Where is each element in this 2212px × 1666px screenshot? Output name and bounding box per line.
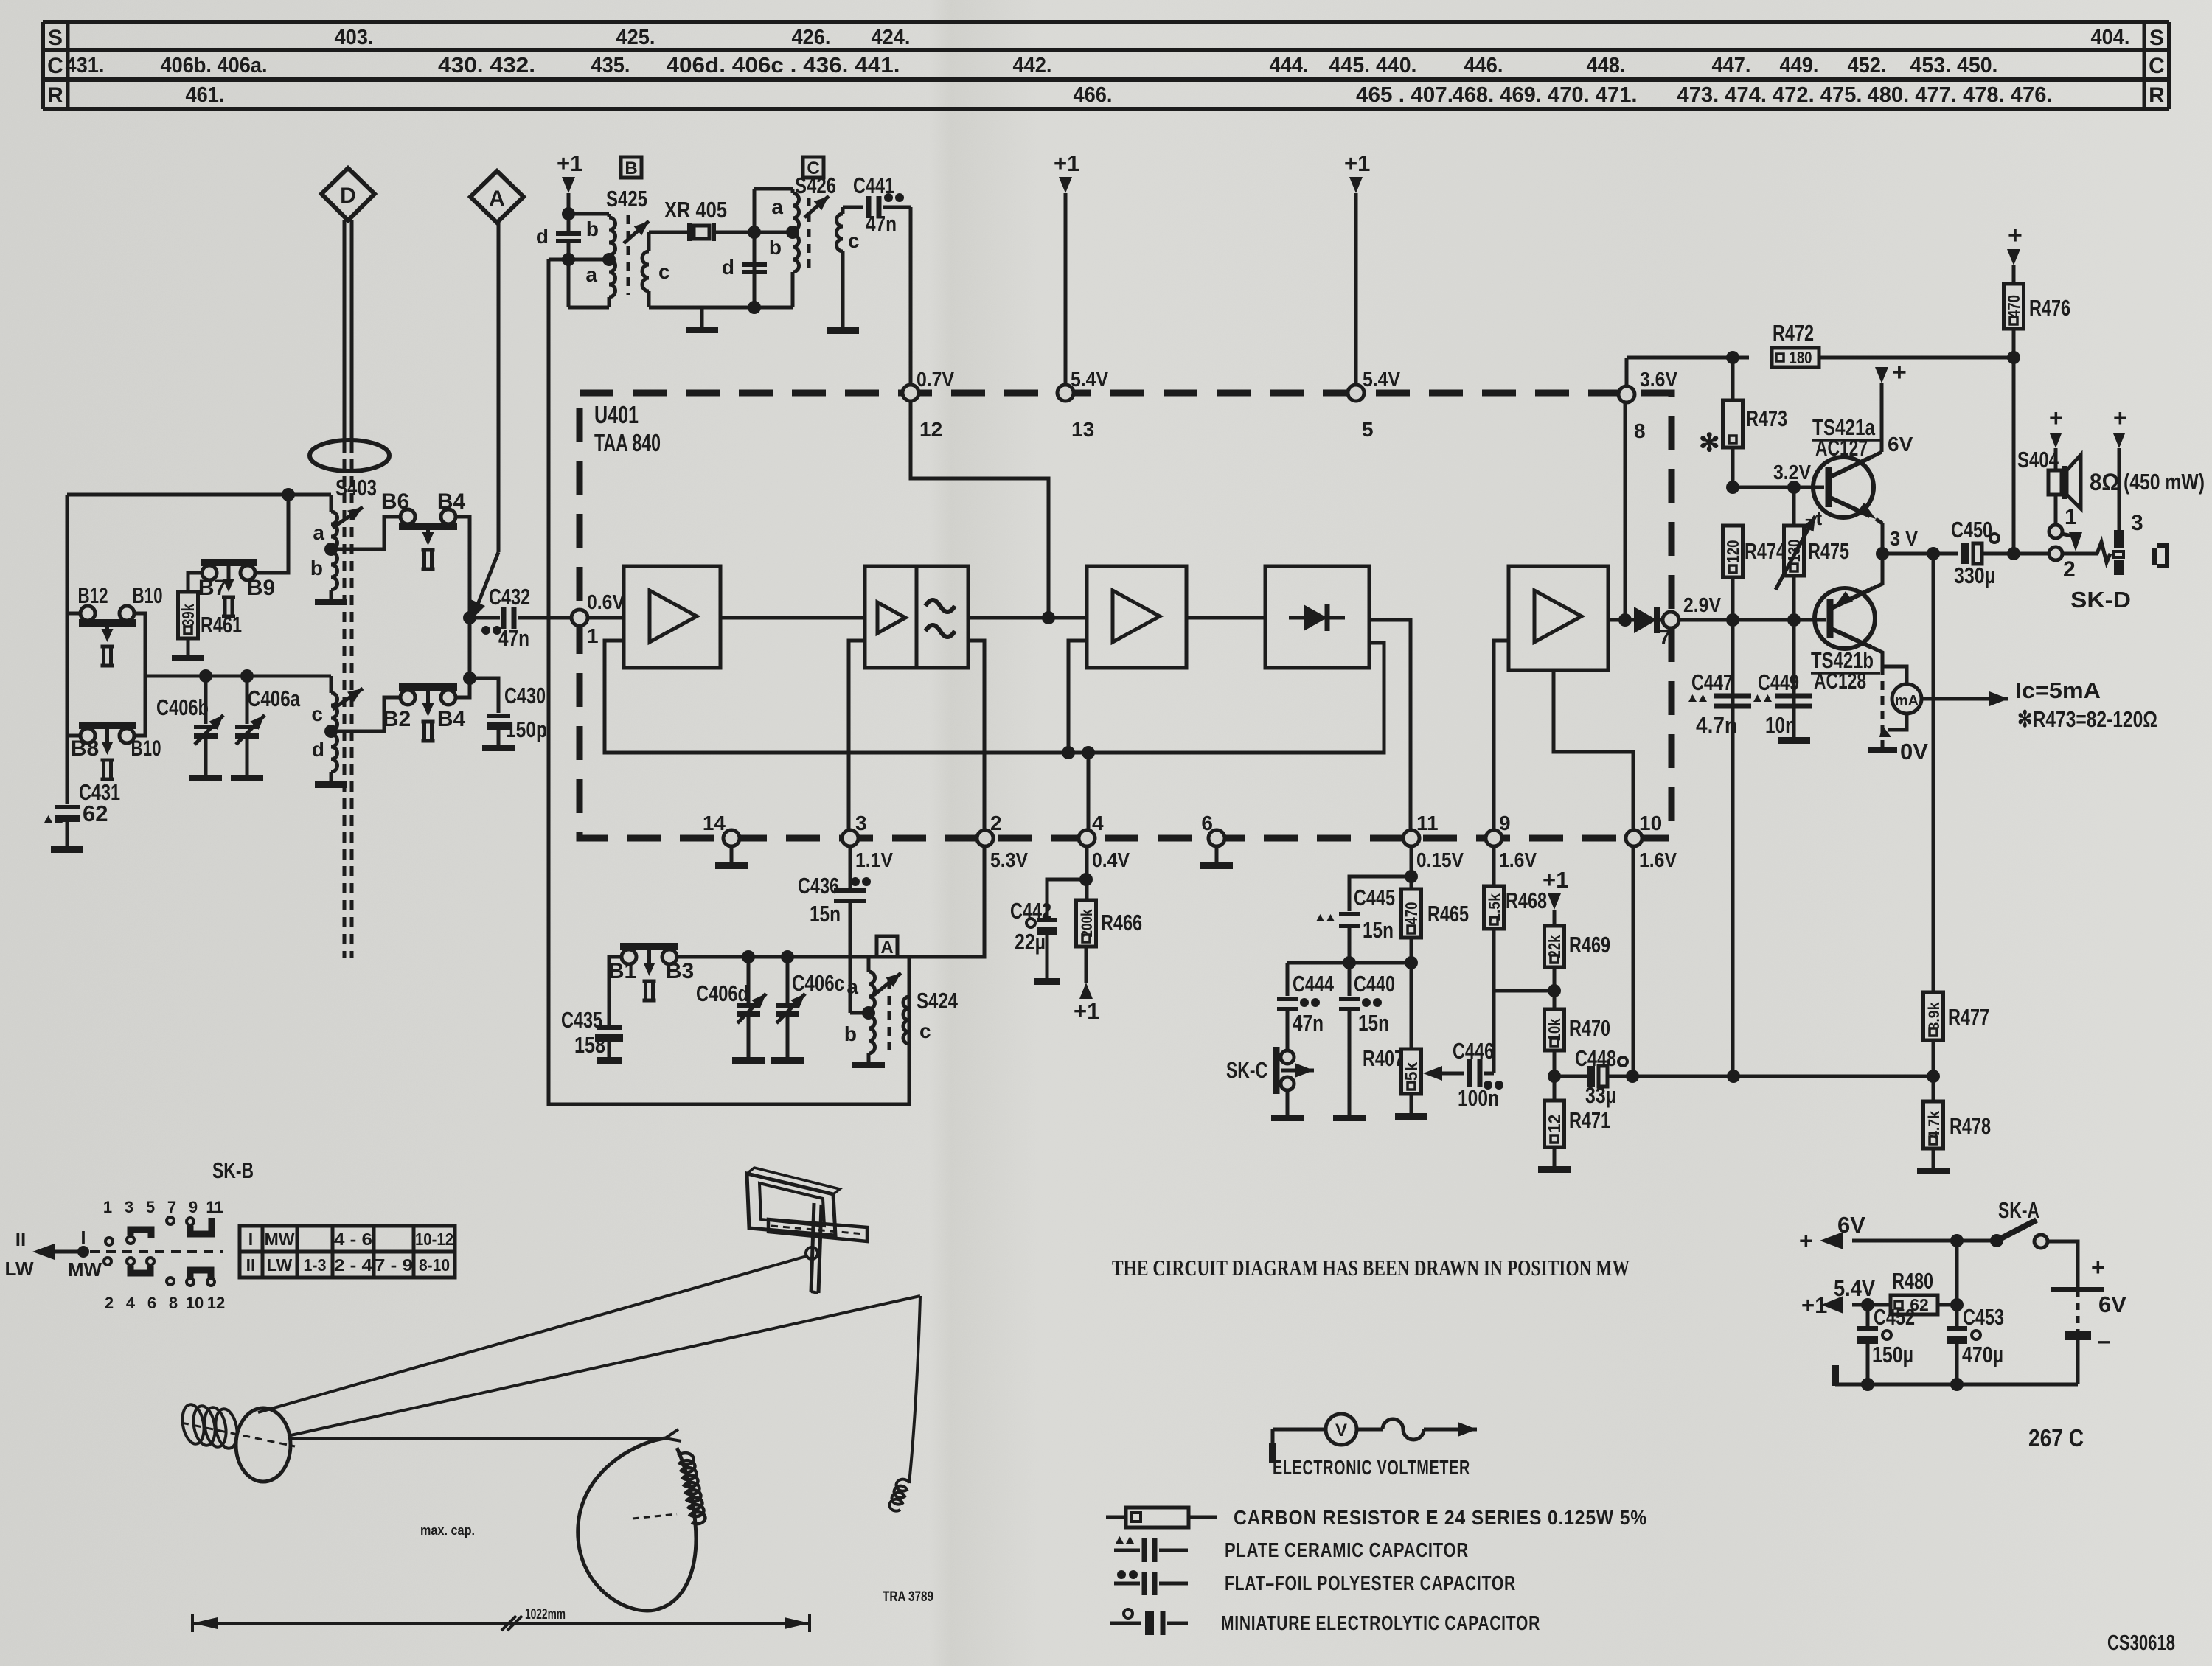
svg-text:1: 1 (2065, 505, 2077, 529)
svg-text:✻R473=82-120Ω: ✻R473=82-120Ω (2017, 706, 2157, 732)
AF amp output wire and junction (1608, 402, 1634, 627)
svg-text:SK-D: SK-D (2070, 587, 2131, 613)
capacitor C444 47n (1277, 963, 1335, 1050)
svg-text:C446: C446 (1453, 1038, 1494, 1064)
pin 11 (1403, 812, 1464, 871)
Ic measurement arrow (1921, 677, 2157, 732)
component location table (43, 22, 2169, 109)
svg-text:+: + (2049, 405, 2063, 431)
svg-text:180: 180 (1790, 348, 1812, 367)
crystal XR405 (649, 197, 793, 241)
S426 secondary coil c (837, 207, 860, 327)
svg-text:MW: MW (68, 1258, 102, 1280)
resistor R477 3.9k (1924, 992, 1990, 1083)
svg-text:B: B (625, 158, 637, 178)
svg-text:b: b (844, 1022, 857, 1045)
svg-text:4: 4 (126, 1294, 136, 1312)
svg-text:C406c: C406c (792, 970, 844, 996)
svg-text:B8: B8 (71, 736, 99, 761)
cord tension loop (578, 1429, 696, 1611)
capacitor C430 150p (470, 678, 547, 745)
svg-text:S424: S424 (917, 988, 959, 1014)
switch B1/B3 (608, 947, 694, 1000)
wire B9 up to top wire (255, 495, 288, 573)
svg-text:446.: 446. (1464, 54, 1503, 77)
svg-text:ELECTRONIC VOLTMETER: ELECTRONIC VOLTMETER (1273, 1456, 1470, 1479)
RF amplifier block (624, 566, 720, 668)
svg-text:MINIATURE ELECTROLYTIC CAPAC: MINIATURE ELECTROLYTIC CAPACITOR (1221, 1611, 1540, 1634)
svg-text:+: + (1892, 358, 1907, 386)
svg-text:LW: LW (267, 1255, 293, 1275)
svg-text:mA: mA (1895, 693, 1919, 709)
svg-text:C436: C436 (798, 873, 839, 899)
ground at battery return (1832, 1365, 1839, 1386)
svg-text:CARBON RESISTOR E 24 SERI: CARBON RESISTOR E 24 SERIES 0.125W 5% (1234, 1506, 1647, 1529)
capacitor C449 10n (1753, 620, 1812, 744)
svg-text:C444: C444 (1293, 971, 1335, 997)
ground below C406b (189, 775, 222, 781)
junction wire C445/C440/R465 (1287, 956, 1418, 969)
S424 coil b (844, 1006, 875, 1062)
svg-text:200k: 200k (1079, 909, 1096, 937)
capacitor C447 4.7n (1688, 620, 1751, 1076)
svg-text:5.4V: 5.4V (1363, 368, 1400, 391)
svg-text:R: R (47, 83, 63, 108)
IF filter block (865, 566, 968, 668)
svg-text:473. 474. 472. 475.: 473. 474. 472. 475. (1677, 83, 1863, 107)
svg-text:+: + (1799, 1227, 1813, 1254)
S426 coil a (771, 189, 799, 231)
TS421b collector wire to meter (1871, 647, 1907, 685)
resistor R480 62 (1861, 1268, 1957, 1314)
svg-text:B4: B4 (437, 707, 466, 731)
pin 3 (842, 812, 893, 871)
S425 coil b (586, 214, 616, 255)
svg-text:444.: 444. (1270, 54, 1309, 77)
cord end coil at right (890, 1479, 909, 1511)
svg-text:404.: 404. (2091, 26, 2130, 49)
svg-text:13: 13 (1071, 418, 1094, 441)
svg-text:6V: 6V (1837, 1212, 1865, 1238)
S426 core dashed (807, 198, 811, 274)
svg-text:15n: 15n (810, 901, 841, 927)
capacitor C432 47n (463, 584, 571, 651)
pin 6 with ground (1200, 812, 1233, 869)
S425 secondary coil c (642, 232, 670, 307)
resistor R473 (selected) (1699, 358, 1787, 487)
svg-text:C445: C445 (1354, 885, 1395, 910)
pin 8 (1618, 368, 1677, 442)
tuning capacitor frame (dial cord drawing) (747, 1168, 840, 1235)
svg-text:S403: S403 (335, 475, 377, 501)
pin 7 (1659, 612, 1679, 649)
svg-text:3: 3 (855, 812, 867, 834)
filter output to pin 2 (968, 641, 984, 830)
svg-text:3.6V: 3.6V (1640, 368, 1677, 391)
capacitor C448 33u electrolytic (1554, 1045, 1632, 1108)
S403 coil a (313, 495, 337, 549)
pin 4 riser to AGC wire (1082, 746, 1095, 830)
svg-text:10: 10 (186, 1294, 204, 1312)
wire B4 to node below C432 (457, 678, 470, 697)
oscillator feedback wire (long left vertical and bottom) (549, 259, 909, 1104)
svg-text:XR 405: XR 405 (664, 197, 727, 223)
svg-text:8-10: 8-10 (419, 1255, 450, 1275)
svg-text:c: c (919, 1020, 931, 1042)
ground below SK-C (1271, 1115, 1304, 1121)
6V supply arrow (1799, 1212, 1997, 1254)
svg-text:150µ: 150µ (1872, 1342, 1913, 1367)
pin 12 (902, 368, 954, 441)
svg-text:7: 7 (167, 1198, 176, 1216)
svg-text:4 - 6: 4 - 6 (334, 1230, 372, 1249)
left vertical wire B12-B8 (66, 495, 69, 736)
svg-text:465 . 407.: 465 . 407. (1356, 83, 1453, 107)
svg-text:d: d (312, 738, 324, 761)
svg-text:22µ: 22µ (1015, 929, 1046, 955)
svg-text:6: 6 (147, 1294, 156, 1312)
AF preamplifier block (1509, 566, 1608, 670)
switch B8/B10 (67, 725, 161, 779)
pin 9 (1486, 812, 1537, 871)
svg-text:II: II (246, 1255, 256, 1275)
S424 trimmer arrow (874, 973, 901, 995)
svg-text:(450 mW): (450 mW) (2124, 469, 2205, 495)
svg-text:B7: B7 (198, 576, 226, 600)
pin 14 with ground (703, 812, 748, 869)
svg-text:C432: C432 (489, 584, 530, 610)
oscillator line (pin2 to B3) (677, 846, 984, 957)
variable capacitor C406a (235, 669, 301, 775)
SK-B contact set lower (104, 1258, 215, 1286)
ground below R471 (1538, 1166, 1571, 1173)
ground below C440 (1333, 1115, 1366, 1121)
junction R477 branch (1927, 547, 1940, 560)
capacitor C435 158 (561, 957, 623, 1064)
svg-text:12: 12 (919, 418, 942, 441)
svg-text:442.: 442. (1013, 54, 1052, 77)
svg-text:THE CIRCUIT DIAGRAM HAS BEEN D: THE CIRCUIT DIAGRAM HAS BEEN DRAWN IN PO… (1112, 1255, 1630, 1280)
svg-text:448.: 448. (1587, 54, 1626, 77)
capacitor C440 15n (1339, 963, 1395, 1115)
svg-text:C406d: C406d (696, 980, 748, 1006)
tuning bus wire (145, 675, 331, 678)
legend flat-foil symbol (1114, 1570, 1188, 1595)
svg-text:0.4V: 0.4V (1092, 848, 1130, 871)
ground below S403 b (315, 599, 347, 605)
svg-text:445. 440.: 445. 440. (1329, 54, 1417, 77)
S425 trimmer arrow (624, 221, 649, 243)
svg-text:5.4V: 5.4V (1071, 368, 1108, 391)
SK-B contact set upper (105, 1217, 212, 1245)
jack break contact blade (2062, 532, 2091, 554)
wire B10 up to coil bus (134, 676, 145, 736)
dimension line 1022mm (192, 1606, 810, 1632)
svg-text:c: c (658, 260, 670, 283)
S426 tank loop with capacitor d (722, 189, 793, 314)
AF amp output to pin 10 (1554, 670, 1633, 830)
svg-text:D: D (340, 184, 356, 208)
S424 coil c (903, 997, 931, 1044)
switch B2/B4 (383, 687, 466, 741)
svg-text:6V: 6V (1888, 433, 1913, 456)
S403 coil b (310, 552, 338, 599)
ground below C430 (482, 745, 515, 751)
svg-text:b: b (769, 236, 782, 259)
wire down to R477 (1932, 554, 1935, 992)
detector block (1265, 566, 1369, 668)
resistor R469 22k (1545, 926, 1611, 1009)
svg-text:C442: C442 (1010, 898, 1051, 924)
svg-text:B9: B9 (247, 576, 275, 600)
svg-text:0.6V: 0.6V (587, 590, 625, 613)
svg-text:R471: R471 (1569, 1107, 1610, 1133)
signal wire pin1 to RF amp (580, 616, 624, 620)
svg-text:CS30618: CS30618 (2107, 1631, 2175, 1655)
svg-text:B1: B1 (608, 959, 636, 983)
svg-text:R461: R461 (201, 612, 242, 638)
resistor R478 4.7k (1924, 1076, 1992, 1168)
svg-text:2: 2 (2063, 557, 2076, 582)
svg-text:2.9V: 2.9V (1683, 593, 1721, 616)
svg-text:max. cap.: max. cap. (420, 1523, 475, 1538)
svg-text:1: 1 (103, 1198, 112, 1216)
battery 6V (2051, 1254, 2126, 1384)
svg-text:11: 11 (1416, 812, 1439, 834)
svg-text:C452: C452 (1874, 1304, 1915, 1330)
wire R468 bottom to R469/R470 node (1494, 984, 1561, 997)
svg-text:1.6V: 1.6V (1639, 848, 1677, 871)
signal wire IF amp to detector (1186, 616, 1265, 620)
ground below C406a (231, 775, 263, 781)
variable capacitor C406b (156, 669, 223, 775)
svg-text:3: 3 (125, 1198, 133, 1216)
loudspeaker 8 ohm (2017, 447, 2205, 525)
svg-text:480. 477. 478. 476.: 480. 477. 478. 476. (1868, 83, 2053, 107)
svg-text:1: 1 (587, 624, 599, 647)
svg-text:+1: +1 (1344, 150, 1370, 176)
svg-text:B2: B2 (383, 707, 411, 731)
svg-text:MW: MW (265, 1230, 295, 1249)
svg-text:S426: S426 (795, 172, 836, 198)
junction 6V rail to R480 (1950, 1234, 1964, 1311)
U401 designator (594, 401, 661, 456)
potentiometer R407 5k (1363, 1045, 1422, 1113)
wire tap to B6 (331, 517, 399, 549)
capacitor C436 15n (798, 846, 871, 1013)
battery return wire (1835, 1383, 2078, 1387)
svg-text:8Ω: 8Ω (2090, 469, 2119, 495)
SK-B pin numbers top (103, 1198, 223, 1216)
resistor R466 200k (1077, 846, 1143, 983)
svg-text:C435: C435 (561, 1007, 602, 1033)
wire tap to B2 (331, 697, 399, 731)
resistor R461 39k (178, 573, 243, 655)
svg-text:10n: 10n (1765, 712, 1796, 738)
IC U401 TAA840 dashed boundary (580, 393, 1672, 838)
svg-text:8: 8 (169, 1294, 178, 1312)
svg-text:S: S (2149, 26, 2164, 50)
svg-text:+1: +1 (1074, 998, 1099, 1024)
svg-text:+1: +1 (557, 150, 582, 176)
svg-text:453. 450.: 453. 450. (1910, 54, 1998, 77)
svg-text:R474: R474 (1745, 538, 1787, 564)
power +1 above R469 (1543, 867, 1568, 926)
ground below R478 (1917, 1168, 1950, 1174)
signal wire filter to IF amp (968, 616, 1087, 620)
resistor R472 180 (1772, 320, 2014, 367)
svg-text:+1: +1 (1543, 867, 1568, 893)
svg-text:B4: B4 (437, 489, 466, 514)
svg-text:V: V (1335, 1421, 1347, 1440)
svg-text:330µ: 330µ (1954, 562, 1995, 588)
label box A (877, 936, 897, 958)
+1 rail arrow 5.4V (1801, 1275, 1875, 1318)
capacitor C431 (44, 736, 120, 846)
ground below S403 d (315, 781, 347, 788)
ground below R407 (1395, 1113, 1427, 1120)
svg-text:SK-C: SK-C (1226, 1057, 1267, 1083)
transistor TS421b AC128 (1811, 588, 1880, 694)
switch B6/B4 (381, 489, 466, 569)
svg-text:d: d (722, 256, 734, 279)
headphone jack socket SK-D (2113, 405, 2143, 575)
wire pin 10 down to feedback node (1632, 846, 1635, 1076)
svg-text:8: 8 (1634, 419, 1646, 442)
svg-text:R477: R477 (1948, 1004, 1989, 1030)
svg-text:5: 5 (1362, 418, 1374, 441)
svg-text:c: c (311, 703, 323, 725)
svg-text:R465: R465 (1427, 901, 1469, 927)
svg-text:I: I (248, 1230, 253, 1249)
svg-text:150p: 150p (506, 717, 547, 742)
svg-text:Ic=5mA: Ic=5mA (2015, 677, 2101, 703)
junction B9 riser (282, 488, 295, 501)
power +1 into pin 13 (1054, 150, 1079, 385)
svg-text:C406b: C406b (156, 694, 209, 720)
svg-text:468. 469. 470. 471.: 468. 469. 470. 471. (1453, 83, 1638, 107)
svg-text:14: 14 (703, 812, 726, 834)
output base wire pin7 to TS421b (1679, 618, 1826, 622)
svg-text:LW: LW (5, 1258, 34, 1280)
svg-text:461.: 461. (186, 83, 225, 107)
svg-text:33µ: 33µ (1585, 1082, 1616, 1108)
svg-text:+: + (2113, 405, 2127, 431)
ferrite rod core (dashed) (343, 442, 347, 958)
svg-text:62: 62 (83, 801, 108, 826)
pin 5 (1348, 368, 1400, 441)
svg-text:B10: B10 (131, 736, 161, 761)
TS421b emitter wire up to output node (1873, 554, 1882, 588)
filter input feedback to pin 3 (849, 641, 865, 830)
svg-text:1.1V: 1.1V (855, 848, 893, 871)
svg-text:6: 6 (1201, 812, 1213, 834)
svg-text:✻: ✻ (1699, 429, 1720, 457)
svg-text:+1: +1 (1054, 150, 1079, 176)
SK-B position arrow (5, 1227, 102, 1280)
S425 coil a (585, 259, 615, 307)
svg-text:4.7n: 4.7n (1696, 712, 1737, 738)
svg-text:449.: 449. (1780, 54, 1819, 77)
svg-text:0.7V: 0.7V (917, 368, 954, 391)
S424 coil a (846, 957, 874, 1009)
svg-text:b: b (310, 557, 323, 579)
S425 primary loop with capacitor d (536, 207, 609, 307)
svg-text:C448: C448 (1575, 1045, 1616, 1071)
svg-text:424.: 424. (872, 26, 911, 49)
svg-text:C450: C450 (1951, 517, 1992, 543)
svg-text:452.: 452. (1848, 54, 1887, 77)
S426 trimmer arrow (804, 196, 829, 217)
svg-text:B10: B10 (133, 584, 163, 608)
pin 1 (571, 610, 588, 626)
switch B7/B9 (198, 562, 275, 616)
svg-text:0.15V: 0.15V (1416, 848, 1464, 871)
svg-text:B6: B6 (381, 489, 409, 514)
svg-text:120: 120 (1723, 540, 1742, 563)
speaker supply arrow (2049, 405, 2063, 470)
svg-text:47n: 47n (498, 625, 529, 651)
SK-B dashed travel line (90, 1250, 223, 1253)
ground below C431 (51, 846, 83, 853)
power +1 into pin 5 (1344, 150, 1370, 385)
switch SK-C (1226, 1047, 1314, 1115)
emitter wire to output node (1876, 519, 1882, 523)
svg-text:C440: C440 (1354, 971, 1395, 997)
svg-text:10: 10 (1639, 812, 1662, 834)
svg-text:S: S (48, 26, 63, 50)
output node 3V (1876, 527, 1958, 560)
S426 coil b (769, 226, 799, 307)
svg-text:431.: 431. (66, 54, 105, 77)
legend plate ceramic symbol (1114, 1536, 1188, 1562)
svg-text:470µ: 470µ (1962, 1342, 2003, 1367)
plug symbol (2152, 546, 2167, 566)
svg-text:11: 11 (206, 1198, 223, 1216)
svg-text:5: 5 (146, 1198, 155, 1216)
svg-text:5.3V: 5.3V (990, 848, 1028, 871)
svg-text:+: + (2008, 221, 2023, 249)
svg-text:R468: R468 (1506, 888, 1547, 913)
jack spring contact squiggle (2091, 542, 2110, 562)
svg-text:a: a (771, 195, 783, 218)
svg-text:12: 12 (1545, 1115, 1564, 1134)
0V dashed wire and ground (1868, 666, 1928, 764)
svg-text:447.: 447. (1712, 54, 1751, 77)
svg-text:FLAT–FOIL POLYESTER CAPACITO: FLAT–FOIL POLYESTER CAPACITOR (1225, 1572, 1516, 1594)
svg-text:430. 432.: 430. 432. (438, 54, 535, 77)
svg-text:1022mm: 1022mm (525, 1606, 566, 1623)
thermistor R475 130 (1775, 481, 1849, 627)
ferrite rod ellipse (310, 440, 389, 471)
svg-text:C447: C447 (1691, 669, 1733, 695)
ground below S424 b (852, 1062, 885, 1068)
svg-text:R476: R476 (2029, 295, 2070, 321)
svg-text:15n: 15n (1358, 1010, 1389, 1036)
S426 bottom wire (649, 306, 793, 310)
svg-text:R478: R478 (1950, 1113, 1991, 1139)
svg-text:2: 2 (105, 1294, 114, 1312)
svg-text:C453: C453 (1963, 1304, 2004, 1330)
cord turns on drum shaft (180, 1403, 240, 1450)
svg-text:4.7k: 4.7k (1926, 1111, 1943, 1139)
SK-B band table (240, 1226, 455, 1278)
svg-text:SK-B: SK-B (212, 1157, 254, 1183)
S424 core dashed (888, 980, 891, 1050)
svg-text:AC128: AC128 (1814, 668, 1866, 694)
resistor R470 10k (1545, 1009, 1611, 1083)
svg-text:158: 158 (574, 1032, 605, 1058)
